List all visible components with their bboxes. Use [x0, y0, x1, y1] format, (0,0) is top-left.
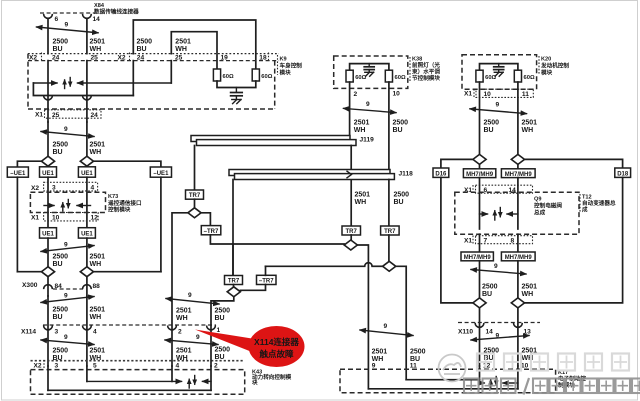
module K9 body control module dashed box	[28, 54, 275, 109]
svg-text:2501: 2501	[90, 142, 106, 149]
resistor 60 ohm right in BCM	[252, 69, 273, 81]
svg-text:84: 84	[55, 283, 63, 290]
wire MH7 to lower node right	[517, 261, 519, 298]
svg-text:BU: BU	[393, 127, 403, 134]
svg-text:BU: BU	[215, 354, 225, 361]
wire junction down to TR7 lower	[232, 244, 234, 276]
wire 2500 BU K157 pin10 down	[388, 82, 390, 174]
harness label box -UE1 right	[150, 167, 171, 177]
module K43 label	[252, 370, 292, 387]
svg-text:Q9: Q9	[534, 197, 541, 203]
svg-text:9: 9	[188, 292, 192, 299]
svg-text:TR7: TR7	[384, 229, 396, 235]
module K20 label	[539, 56, 569, 77]
connector X2 K43 label	[34, 360, 45, 370]
svg-text:X300: X300	[22, 282, 38, 289]
resistor 60 ohm right in K20	[514, 70, 535, 82]
ground symbol in K157	[365, 72, 374, 76]
value label 2501 WH right pair upper	[176, 308, 192, 323]
wire BCM internal branch from X2-25 right	[170, 61, 172, 83]
wire bus 2500 BU through BCM	[47, 61, 49, 122]
svg-text:19: 19	[221, 55, 229, 62]
connector X114 bump pin 4	[83, 326, 92, 330]
svg-text:BU: BU	[484, 127, 494, 134]
annotation balloon	[249, 326, 305, 367]
ground symbol in K20	[494, 72, 503, 76]
svg-text:60Ω: 60Ω	[223, 74, 234, 80]
svg-text:12: 12	[91, 215, 99, 222]
wire -TR7 mid to diamond mid	[240, 285, 265, 291]
svg-text:2: 2	[354, 91, 358, 98]
connector X300 bump pin 84	[44, 285, 53, 289]
connector X1 BCM dotted box	[45, 110, 102, 118]
svg-text:25: 25	[175, 55, 183, 62]
wire BCM internal lower loop	[33, 83, 133, 96]
svg-text:动力转向控制模: 动力转向控制模	[252, 373, 292, 381]
svg-text:X1: X1	[464, 238, 472, 245]
capacitor to ground in BCM	[231, 88, 243, 100]
wire K43 internal BU arrow	[203, 380, 212, 382]
svg-text:2500: 2500	[410, 349, 426, 356]
svg-text:2500: 2500	[393, 120, 409, 127]
svg-text:14: 14	[93, 16, 101, 23]
svg-text:BU: BU	[215, 315, 225, 322]
value label 2500 BU below K157	[393, 120, 409, 135]
svg-text:BU: BU	[53, 149, 63, 156]
BCM CAN symbol up down arrows	[65, 78, 71, 89]
resistor 60 ohm left in K20	[476, 70, 497, 82]
svg-text:X114: X114	[21, 329, 36, 336]
annotation balloon text	[254, 337, 299, 359]
module K17 brake control dashed box	[340, 369, 556, 392]
wire Q9 to MH7 lower left	[479, 234, 481, 252]
value label 2501 WH	[90, 39, 106, 54]
svg-text:WH: WH	[90, 261, 102, 268]
wire K157 internal top bus	[350, 64, 389, 71]
connector X114 bump pin 3	[44, 326, 53, 330]
wire diamond to MH7 box left	[479, 164, 481, 168]
svg-text:8: 8	[511, 238, 515, 245]
wire MH7 to Q9 right	[517, 178, 519, 229]
harness label box -TR7 upper	[201, 226, 221, 235]
wire 2500 BU UE1 to node lower	[47, 238, 49, 267]
wire diamond BU right branch down	[396, 266, 406, 379]
svg-text:D18: D18	[617, 171, 629, 177]
value label 2500 BU below K73	[53, 254, 69, 269]
svg-text:9: 9	[496, 102, 500, 109]
wire K43 internal pin2 down	[210, 366, 212, 390]
svg-text:J119: J119	[360, 137, 375, 144]
svg-text:X2: X2	[29, 55, 37, 62]
wire side loop right rejoin	[94, 271, 161, 273]
module K43 power steering dashed box	[31, 370, 245, 395]
module K157 label	[410, 57, 440, 83]
svg-text:WH: WH	[355, 199, 367, 206]
svg-text:9: 9	[64, 126, 68, 133]
svg-text:10: 10	[52, 215, 60, 222]
svg-text:WH: WH	[90, 46, 102, 53]
svg-text:X2: X2	[31, 185, 39, 192]
value label 2501 WH below J118	[355, 192, 371, 207]
harness label box TR7 on 2501 WH	[342, 226, 361, 235]
connector X1 Q9 lower label	[464, 236, 473, 245]
wire diamond left branch 2501 WH down to X114	[172, 213, 188, 366]
bump crossover on wire 2500 BU inside BCM	[44, 96, 53, 100]
svg-text:2: 2	[178, 329, 182, 336]
svg-text:数据传输线连接器: 数据传输线连接器	[94, 8, 139, 16]
wire 2501 WH node to X300	[86, 277, 88, 296]
K17 CAN symbol up down arrows	[491, 377, 497, 389]
value label 2500 BU below J118	[394, 192, 410, 207]
svg-text:WH: WH	[176, 355, 188, 362]
wire J118 left end down	[232, 180, 234, 276]
module K20 engine control dashed box	[462, 55, 537, 89]
svg-text:BU: BU	[53, 261, 63, 268]
value label 2500 BU below MH7	[482, 284, 498, 299]
bump crossover on wire 2501 WH inside BCM	[83, 96, 92, 100]
svg-text:60Ω: 60Ω	[395, 75, 406, 81]
connector X84 data link connector label	[94, 3, 139, 16]
svg-text:X1: X1	[35, 112, 43, 119]
connector X84 terminal bump pin 6	[44, 14, 53, 18]
wire BCM internal branch from X2-24 right	[132, 61, 134, 96]
svg-text:2501: 2501	[176, 308, 192, 315]
value label 2501 WH middle pair	[372, 349, 388, 364]
value label 2501 WH below X300	[90, 307, 106, 322]
svg-text:BU: BU	[394, 199, 404, 206]
node junction diamond 2500 BU lower	[41, 267, 54, 277]
svg-text:2501: 2501	[522, 120, 538, 127]
value label 2500 BU below K20	[484, 120, 500, 135]
wire K17 internal right WH down	[517, 366, 519, 389]
twisted pair symbol 9 above X114 right pair	[166, 292, 219, 304]
K43 CAN symbol up down arrows	[189, 376, 195, 389]
svg-text:9: 9	[64, 242, 68, 249]
connector X1 BCM label	[35, 112, 43, 119]
connector X300 bump pin 88	[83, 285, 92, 289]
svg-text:K20: K20	[541, 57, 551, 63]
connector X114 bump pin 1	[207, 326, 216, 330]
svg-text:BU: BU	[53, 314, 63, 321]
svg-text:3: 3	[52, 185, 56, 192]
connector X1 K73 dotted box	[44, 213, 99, 221]
wire diamond right branch down long 2501 WH	[357, 245, 368, 389]
connector X114 bump pin 2	[168, 326, 177, 330]
value label 2501 WH right pair lower	[176, 348, 192, 363]
svg-text:2501: 2501	[355, 192, 371, 199]
wire -TR7 down to junction row	[210, 235, 344, 244]
wire resistor bottoms join	[217, 81, 256, 88]
connector X1 Q9 lower dotted box	[476, 236, 533, 244]
value label 2500 BU below X110	[484, 348, 500, 363]
wire TR7 mid to diamond	[233, 285, 235, 288]
svg-text:2500: 2500	[215, 347, 231, 354]
twisted pair symbol 9 below MH7	[471, 263, 526, 274]
pin 18	[259, 53, 268, 62]
wire left branch to -UE1	[17, 161, 41, 167]
connector X300 dashed line	[53, 288, 83, 290]
svg-text:BU: BU	[482, 291, 492, 298]
wire D18 down to lower node	[525, 177, 623, 303]
svg-text:3: 3	[55, 363, 59, 370]
svg-text:2500: 2500	[53, 307, 69, 314]
Q9 CAN symbol arrows	[480, 208, 518, 221]
svg-text:24: 24	[137, 55, 145, 62]
svg-text:2: 2	[214, 363, 218, 370]
module T12 label	[580, 194, 616, 214]
svg-text:4: 4	[93, 329, 97, 336]
wire 2501 WH branch inner loop to BCM pin 19	[171, 32, 217, 69]
svg-text:T12: T12	[582, 195, 592, 201]
harness label box TR7 on 2500 BU	[381, 226, 400, 235]
svg-text:2500: 2500	[53, 142, 69, 149]
svg-text:2500: 2500	[53, 348, 69, 355]
value label 2501 WH below K157	[354, 120, 370, 135]
wire K17 BU arrow	[480, 382, 485, 384]
svg-text:MH7/MH9: MH7/MH9	[464, 255, 492, 261]
harness label box D18	[615, 168, 631, 177]
svg-text:9: 9	[494, 263, 498, 270]
svg-text:K9: K9	[280, 57, 287, 63]
svg-text:2500: 2500	[53, 39, 69, 46]
twisted pair symbol 9 below X110	[471, 333, 529, 341]
twisted pair symbol 9 below K20	[470, 102, 527, 114]
connector X1 K20 dotted box	[476, 89, 533, 97]
svg-text:BU: BU	[137, 46, 147, 53]
connector row X2 lower dashed line	[28, 60, 279, 62]
module K73 telematics dashed box	[30, 192, 105, 212]
svg-text:88: 88	[93, 283, 101, 290]
wire MH7 to lower node left	[479, 261, 481, 298]
svg-text:2500: 2500	[137, 39, 153, 46]
svg-text:节控制模块: 节控制模块	[412, 74, 440, 82]
svg-text:模块: 模块	[541, 69, 553, 77]
svg-text:WH: WH	[354, 127, 366, 134]
svg-text:BU: BU	[53, 46, 63, 53]
svg-text:9: 9	[64, 293, 68, 300]
splice bar J118	[229, 170, 394, 180]
svg-text:WH: WH	[522, 291, 534, 298]
svg-text:模块: 模块	[280, 69, 292, 77]
svg-text:块: 块	[252, 379, 258, 387]
node junction diamond 2501 WH lower	[80, 267, 93, 277]
module K157 headlamp leveling dashed box	[334, 56, 408, 88]
value label 2500 BU right pair lower	[215, 347, 231, 362]
wire diamond to MH7 box right	[517, 164, 519, 168]
value label 2501 WH below X114	[90, 348, 106, 363]
svg-text:3: 3	[55, 329, 59, 336]
wire crossover continue to diamond	[372, 265, 383, 267]
harness label box D16	[433, 168, 449, 177]
svg-text:发动机控制: 发动机控制	[540, 62, 569, 70]
connector X84 terminal bump pin 14	[83, 14, 92, 18]
value label 2500 BU right branch	[137, 39, 153, 54]
connector X2 left label	[29, 53, 42, 62]
svg-text:2501: 2501	[90, 254, 106, 261]
capacitor in K20	[494, 64, 504, 72]
node junction diamond right lower BU	[473, 298, 486, 308]
value label 2501 WH right branch	[175, 39, 191, 54]
svg-text:WH: WH	[176, 315, 188, 322]
svg-text:5: 5	[93, 363, 97, 370]
value label 2500 BU below X114	[53, 348, 69, 363]
svg-text:9: 9	[196, 334, 200, 341]
svg-text:前照灯（光: 前照灯（光	[412, 61, 440, 69]
wire K43 internal pin4 down	[171, 366, 173, 381]
svg-text:自动变速器总: 自动变速器总	[582, 199, 616, 207]
svg-text:遥控通信接口: 遥控通信接口	[108, 199, 142, 207]
wire K43 internal WH horizontal with arrow	[87, 380, 182, 382]
svg-text:25: 25	[52, 112, 60, 119]
wire BCM transceiver line right with arrow	[78, 82, 172, 84]
harness label box MH7/MH9 upper left	[463, 169, 495, 178]
wire side loop left rejoin	[17, 271, 41, 273]
node junction diamond 2500 BU upper	[41, 156, 54, 166]
node junction diamond right lower WH	[511, 298, 524, 308]
wire MH7 to Q9 left	[479, 178, 481, 229]
bump crossover over 2501 WH	[365, 263, 372, 267]
value label 2501 WH below X110	[522, 348, 538, 363]
svg-text:10: 10	[393, 91, 401, 98]
wire branch to D16	[441, 159, 473, 168]
svg-text:6: 6	[55, 16, 59, 23]
value label 2500 BU below BCM	[53, 142, 69, 157]
svg-text:12: 12	[483, 363, 491, 370]
connector X110 dashed line	[458, 322, 540, 324]
twisted pair symbol 9 middle pair	[360, 323, 413, 336]
svg-text:2500: 2500	[53, 254, 69, 261]
wire 2500 BU branch upper loop to BCM pin 18	[133, 20, 256, 69]
wire K17 internal left BU down	[479, 366, 481, 383]
harness label box UE1 on wire 2500 BU	[40, 167, 57, 177]
wire Q9 to MH7 lower right	[517, 234, 519, 252]
resistor 60 ohm left in BCM	[213, 69, 234, 81]
svg-text:2500: 2500	[484, 120, 500, 127]
svg-text:触点故障: 触点故障	[258, 349, 294, 359]
svg-text:9: 9	[366, 101, 370, 108]
resistor 60 ohm left in K157	[346, 70, 367, 82]
twisted pair symbol 9 below BCM	[41, 126, 94, 137]
wire 2500 BU node to X300	[47, 277, 49, 296]
svg-text:WH: WH	[522, 127, 534, 134]
node junction diamond 2500 BU right top	[473, 154, 486, 164]
wire BCM transceiver line left with arrow	[33, 82, 57, 84]
svg-text:7: 7	[484, 238, 488, 245]
wire K43 internal 2500 BU down	[47, 366, 49, 390]
svg-text:4: 4	[176, 363, 180, 370]
module K17 label	[558, 370, 586, 389]
svg-text:X1: X1	[464, 91, 472, 98]
value label 2501 WH below BCM	[90, 142, 106, 157]
wire node to X110 left	[479, 308, 481, 366]
connector X110 bump pin 14	[475, 323, 484, 327]
connector X84 dashed line	[40, 12, 97, 14]
svg-text:J118: J118	[399, 171, 414, 178]
value label 2501 WH below MH7	[522, 284, 538, 299]
connector X110 bump pin 13	[514, 323, 523, 327]
svg-text:成: 成	[582, 206, 588, 214]
value label 2501 WH below K73	[90, 254, 106, 269]
svg-text:–TR7: –TR7	[259, 279, 274, 285]
wire TR7 to diamond	[194, 199, 196, 208]
svg-text:18: 18	[259, 55, 267, 62]
svg-text:UE1: UE1	[42, 171, 54, 177]
wire 2501 WH X300 to X114	[86, 296, 88, 366]
wire K43 internal 2501 WH down	[86, 366, 88, 381]
svg-text:X2: X2	[34, 363, 42, 370]
svg-text:9: 9	[384, 323, 388, 330]
harness label box UE1 lower left	[40, 228, 57, 238]
twisted pair symbol 9 below X114 right pair	[165, 334, 218, 345]
wire 2501 WH K157 pin2 down	[349, 82, 351, 140]
svg-text:WH: WH	[90, 149, 102, 156]
wire bus 2501 WH through BCM	[86, 61, 88, 122]
twisted pair symbol 9 below K73	[41, 242, 94, 252]
watermark row 1 light	[477, 354, 629, 371]
connector X2 K73 dotted box	[44, 182, 98, 191]
svg-text:2500: 2500	[394, 192, 410, 199]
node junction diamond 2501 WH upper	[80, 156, 93, 166]
wire side loop right down	[160, 177, 162, 272]
module K9 label	[278, 55, 303, 77]
twisted pair symbol 9 below X300	[41, 293, 94, 303]
svg-text:X84: X84	[94, 3, 105, 9]
K73 CAN symbol arrows	[44, 200, 91, 212]
wire TR7 to diamond 2500 BU	[388, 235, 390, 261]
harness label box MH7/MH9 lower left	[461, 252, 493, 261]
twisted pair symbol 9 below X114 left	[41, 334, 94, 345]
annotation balloon tail	[195, 330, 255, 353]
wire side loop left down	[16, 177, 18, 272]
watermark logo circle	[439, 355, 466, 382]
wire 2500 BU X300 to X114	[47, 296, 49, 366]
svg-text:11: 11	[522, 91, 529, 98]
svg-text:WH: WH	[175, 46, 187, 53]
svg-text:24: 24	[52, 55, 60, 62]
wire K20 internal top bus	[480, 64, 518, 71]
svg-text:X110: X110	[458, 329, 473, 336]
svg-text:控制模块: 控制模块	[108, 205, 131, 213]
harness label box -TR7 mid	[257, 275, 277, 284]
twisted pair symbol 9 at X84	[37, 22, 99, 33]
wire 2501 WH BCM to node	[86, 122, 88, 156]
wire K17 WH arrow	[503, 382, 518, 384]
svg-text:2500: 2500	[482, 284, 498, 291]
svg-text:9: 9	[65, 22, 69, 29]
svg-text:–UE1: –UE1	[153, 171, 169, 177]
svg-text:2501: 2501	[372, 349, 388, 356]
value label 2501 WH below K20	[522, 120, 538, 135]
connector X114 dashed line	[43, 324, 216, 326]
svg-text:控制电磁阀: 控制电磁阀	[534, 202, 562, 210]
svg-text:X2: X2	[118, 55, 126, 62]
connector X2 K43 dotted row	[31, 360, 245, 362]
wire K17 internal BU horizontal	[406, 379, 479, 381]
node junction diamond 2501 WH right top	[511, 154, 524, 164]
svg-text:10: 10	[484, 91, 492, 98]
wire 2501 WH UE1 to K73	[86, 177, 88, 228]
node junction diamond TR7 upper	[188, 208, 201, 218]
wire 2500 BU DLC to X2	[47, 19, 49, 54]
ground symbol in BCM	[232, 100, 241, 104]
svg-text:24: 24	[91, 112, 99, 119]
harness label box -UE1 left	[7, 167, 28, 177]
module K73 label	[108, 194, 142, 213]
wire 2501 WH DLC to X2	[86, 19, 88, 54]
svg-text:UE1: UE1	[42, 232, 54, 238]
module Q9 label	[534, 197, 562, 217]
harness label box UE1 on wire 2501 WH	[78, 167, 95, 177]
